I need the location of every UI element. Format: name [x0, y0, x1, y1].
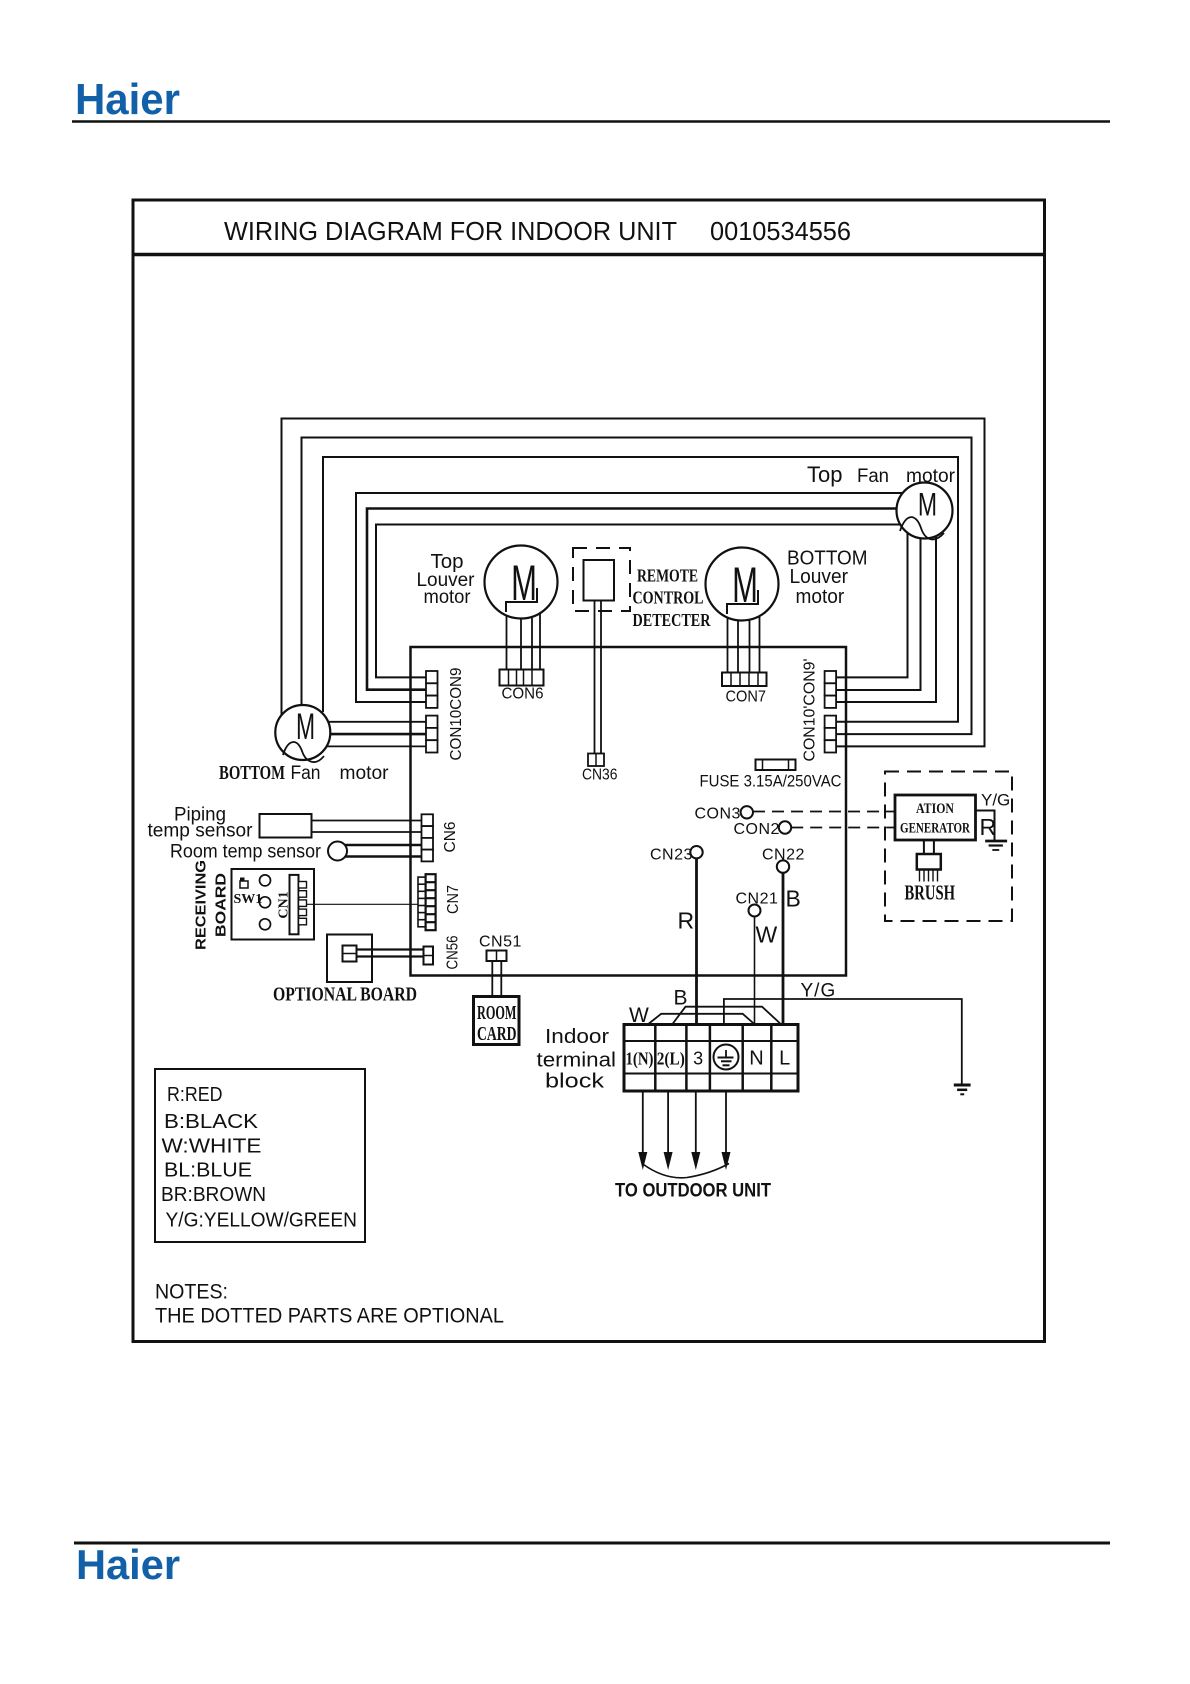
brush block	[917, 854, 941, 870]
svg-text:BR:BROWN: BR:BROWN	[161, 1184, 266, 1206]
svg-text:BRUSH: BRUSH	[905, 881, 956, 905]
svg-text:motor: motor	[340, 763, 390, 784]
wire loop1 (outermost: BOTTOM fan motor to right pin6)	[282, 419, 985, 747]
room temp sensor bulb	[328, 842, 347, 861]
svg-text:BOTTOM: BOTTOM	[219, 762, 285, 784]
svg-text:REMOTE: REMOTE	[637, 566, 698, 586]
wire top-fan drop 2	[834, 530, 921, 690]
wires generator to brush (2)	[923, 841, 925, 855]
svg-text:motor: motor	[424, 587, 472, 608]
pins CON10'CON9' (right, 6)	[825, 671, 837, 753]
svg-text:Top: Top	[807, 462, 842, 487]
svg-text:Y/G: Y/G	[801, 981, 837, 1002]
svg-text:CON3: CON3	[695, 806, 741, 823]
fuse F1	[756, 760, 796, 771]
wire piping sensor to CN6 (2)	[312, 820, 425, 822]
connector CN7	[418, 874, 436, 930]
connector CN36	[588, 754, 604, 767]
svg-text:GENERATOR: GENERATOR	[900, 821, 970, 837]
remote control detecter sensor	[584, 560, 615, 601]
svg-text:B: B	[674, 987, 688, 1010]
svg-text:Haier: Haier	[75, 75, 180, 124]
svg-text:1(N): 1(N)	[626, 1049, 654, 1070]
PCB main board	[411, 647, 847, 976]
brush bristles	[920, 870, 938, 882]
wire top-fan drop 3	[834, 520, 936, 702]
terminal ground symbol	[714, 1045, 739, 1070]
svg-text:BL:BLUE: BL:BLUE	[164, 1160, 252, 1182]
wire optional board to CN56 (2)	[357, 948, 427, 950]
svg-text:M: M	[296, 705, 315, 747]
wire generator to ground	[976, 811, 995, 841]
connector CN51	[487, 951, 507, 962]
svg-text:W: W	[756, 922, 778, 948]
wire R CN23 to terminal 3	[695, 858, 698, 1025]
receiving board LEDs (3)	[260, 875, 271, 886]
receiving board	[232, 869, 315, 940]
svg-text:block: block	[545, 1071, 605, 1093]
svg-text:ROOM: ROOM	[477, 1002, 517, 1024]
motor M2 Top Louver motor	[485, 546, 558, 619]
svg-text:CN6: CN6	[442, 821, 459, 852]
svg-text:CON7: CON7	[726, 689, 767, 706]
svg-text:Y/G:YELLOW/GREEN: Y/G:YELLOW/GREEN	[166, 1210, 358, 1232]
svg-text:Y/G: Y/G	[981, 791, 1010, 810]
svg-text:CN7: CN7	[445, 885, 462, 914]
main frame	[133, 200, 1045, 1342]
svg-text:Fan: Fan	[291, 763, 321, 784]
svg-text:B:BLACK: B:BLACK	[164, 1111, 259, 1133]
dashed wire CON2 to generator	[791, 827, 895, 829]
svg-text:N: N	[749, 1048, 763, 1070]
svg-text:NOTES:: NOTES:	[155, 1281, 228, 1304]
room card	[474, 997, 520, 1045]
connector CON7	[722, 673, 767, 687]
svg-text:motor: motor	[906, 466, 956, 487]
pins CON10CON9 (left, 6)	[426, 671, 438, 753]
svg-text:motor: motor	[796, 586, 845, 608]
svg-text:CN51: CN51	[479, 934, 522, 951]
svg-text:CN56: CN56	[445, 935, 462, 969]
wire loop2	[302, 438, 972, 735]
wire W CN21 to terminal	[754, 917, 756, 1026]
wire CN1 to CN7	[307, 903, 419, 905]
wire room sensor to CN6 (2)	[340, 844, 424, 847]
remote control detecter dashed box	[573, 548, 630, 611]
svg-text:2(L): 2(L)	[657, 1049, 685, 1070]
wire loop3	[323, 457, 958, 722]
title separator	[133, 253, 1045, 257]
optional board connector	[343, 946, 357, 962]
bottom footer rule	[74, 1542, 1110, 1545]
generator U2 box	[895, 795, 976, 840]
svg-text:R:RED: R:RED	[167, 1084, 223, 1106]
svg-text:FUSE 3.15A/250VAC: FUSE 3.15A/250VAC	[700, 772, 842, 791]
wire CN51 to room card (2)	[491, 961, 493, 997]
wires louver1 to CON6	[506, 600, 508, 670]
ground (right of terminal)	[954, 1085, 971, 1094]
wire top-fan drop 1	[834, 520, 908, 677]
legend box	[155, 1069, 365, 1242]
svg-text:Haier: Haier	[76, 1541, 180, 1588]
top header rule	[72, 120, 1110, 123]
dashed wire CON3 to generator	[753, 811, 895, 813]
svg-text:CN23: CN23	[650, 847, 693, 864]
ground (generator)	[985, 841, 1007, 850]
generator dashed enclosure	[885, 772, 1012, 922]
wire loop5	[367, 509, 910, 690]
svg-text:THE DOTTED PARTS ARE OPTIONAL: THE DOTTED PARTS ARE OPTIONAL	[155, 1305, 504, 1328]
svg-text:temp sensor: temp sensor	[148, 821, 254, 842]
svg-text:ATION: ATION	[916, 801, 954, 817]
motor M4 BOTTOM Fan motor	[275, 705, 330, 762]
wire bottom-fan to left pin5	[315, 733, 428, 736]
wire bus W into terminal 1(N)	[648, 1014, 755, 1025]
svg-text:Room temp sensor: Room temp sensor	[170, 842, 322, 863]
connector CN56	[424, 947, 434, 965]
svg-text:CON10'CON9': CON10'CON9'	[802, 659, 819, 762]
connector CN1 strip	[290, 875, 307, 934]
svg-text:Louver: Louver	[790, 566, 849, 588]
motor M1 Top Fan motor	[897, 483, 953, 540]
svg-text:M: M	[918, 487, 937, 523]
svg-text:Indoor: Indoor	[545, 1026, 609, 1048]
switch SW1 icon	[240, 878, 248, 889]
svg-text:CN36: CN36	[582, 767, 618, 784]
piping temp sensor	[260, 814, 312, 838]
svg-text:CONTROL: CONTROL	[633, 588, 704, 608]
svg-text:B: B	[786, 886, 801, 912]
svg-text:BOARD: BOARD	[213, 873, 230, 937]
motor M3 BOTTOM Louver motor	[706, 548, 779, 621]
svg-text:CON2: CON2	[734, 821, 780, 838]
svg-text:3: 3	[693, 1049, 703, 1069]
wire detecter to CN36	[594, 601, 596, 754]
wires to outdoor unit (4 with arrows)	[643, 1091, 726, 1153]
svg-text:Fan: Fan	[857, 466, 889, 487]
svg-text:RECEIVING: RECEIVING	[193, 860, 210, 950]
svg-text:DETECTER: DETECTER	[633, 610, 712, 630]
svg-text:terminal: terminal	[537, 1050, 617, 1072]
wire bus B into terminal 2(L)	[672, 1007, 781, 1025]
wire loop6	[376, 525, 910, 678]
svg-text:OPTIONAL BOARD: OPTIONAL BOARD	[273, 984, 417, 1006]
wire B CN22 to terminal	[782, 873, 785, 1025]
wire loop4 (left pin to Top Fan motor)	[356, 493, 910, 702]
svg-text:CON10CON9: CON10CON9	[448, 667, 465, 760]
cable curve	[643, 1164, 729, 1178]
svg-text:W:WHITE: W:WHITE	[162, 1136, 262, 1158]
svg-text:0010534556: 0010534556	[710, 216, 851, 246]
wire bottom-fan to left pin6	[315, 745, 428, 747]
svg-text:R: R	[980, 814, 997, 840]
wires louver2 to CON7	[727, 600, 729, 673]
wire bottom-fan to left pin4	[315, 721, 428, 723]
svg-text:R: R	[678, 908, 695, 934]
svg-text:CARD: CARD	[477, 1023, 517, 1045]
svg-text:L: L	[779, 1048, 790, 1070]
connector CON6	[500, 670, 544, 686]
indoor terminal block	[624, 1025, 798, 1092]
svg-text:CON6: CON6	[502, 686, 544, 703]
connector CN6 pins	[422, 814, 434, 861]
svg-text:WIRING DIAGRAM FOR INDOOR UNIT: WIRING DIAGRAM FOR INDOOR UNIT	[224, 216, 677, 246]
svg-text:SW1: SW1	[234, 892, 263, 907]
optional board	[327, 935, 372, 983]
wire Y/G terminal to ground	[724, 999, 962, 1084]
svg-text:TO OUTDOOR UNIT: TO OUTDOOR UNIT	[615, 1181, 771, 1202]
